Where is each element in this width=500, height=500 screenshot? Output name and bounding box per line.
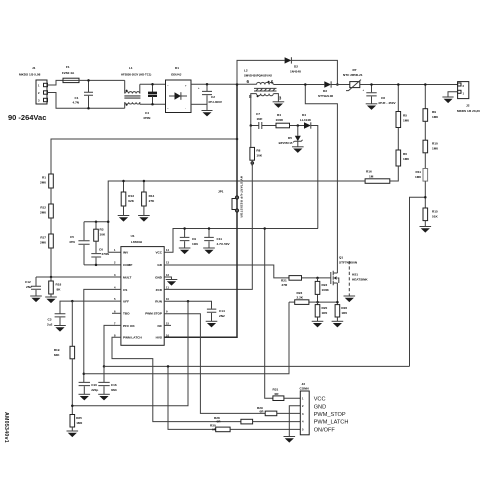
- svg-text:5: 5: [271, 79, 274, 84]
- svg-text:HF2826-203Y (HD-TC1): HF2826-203Y (HD-TC1): [121, 73, 151, 77]
- resistor R11 1M0: [415, 169, 428, 182]
- junction VCC at J3 branch: [263, 227, 266, 230]
- svg-text:HS1: HS1: [352, 273, 358, 277]
- svg-text:C12: C12: [25, 280, 31, 284]
- svg-text:1R0: 1R0: [322, 311, 328, 315]
- wire GND pin stub: [164, 277, 171, 280]
- svg-text:C3: C3: [48, 318, 52, 322]
- svg-text:J3: J3: [302, 382, 306, 386]
- diode D3 STTH2L06 boost diode: [318, 81, 333, 98]
- ground below R25: [67, 431, 79, 437]
- svg-text:10K: 10K: [256, 154, 262, 158]
- wire RUN pin to C14: [164, 301, 211, 308]
- svg-text:R17: R17: [40, 236, 46, 240]
- svg-text:R9: R9: [432, 110, 436, 114]
- resistor R16 1M feedback: [365, 170, 390, 184]
- resistor R1 2M0: [40, 174, 53, 188]
- connector J3 CONN control: [300, 382, 310, 435]
- svg-text:ON/OFF: ON/OFF: [314, 427, 336, 433]
- ground below C3: [54, 326, 66, 332]
- svg-text:12: 12: [166, 273, 169, 277]
- svg-text:R21: R21: [281, 278, 287, 282]
- wire HVS bus vertical: [164, 85, 237, 338]
- wire choke to bridge bottom: [140, 103, 166, 105]
- wire R12 to R17: [50, 218, 52, 234]
- ground IC GND pin: [166, 280, 178, 286]
- ground J3: [284, 437, 296, 443]
- svg-text:C6: C6: [99, 248, 103, 252]
- svg-text:1M0: 1M0: [403, 157, 409, 161]
- svg-text:R18: R18: [56, 283, 62, 287]
- svg-text:L6563H: L6563H: [131, 240, 143, 244]
- ground below C16: [98, 394, 110, 400]
- wire compensation top line: [84, 221, 108, 223]
- wire ZCD net R8 down to IC: [164, 163, 252, 289]
- svg-text:AM05340v1: AM05340v1: [3, 412, 9, 443]
- diode D2 1N4148 bypass: [285, 57, 302, 73]
- junction R9 at rail: [424, 83, 427, 86]
- svg-text:1M0: 1M0: [76, 421, 82, 425]
- svg-text:GBU4J: GBU4J: [171, 73, 182, 77]
- ground below C8: [366, 104, 378, 110]
- capacitor C16 3N3 pfc_ok: [98, 366, 117, 394]
- svg-text:1NF: 1NF: [257, 117, 263, 121]
- wire output rail to D3: [274, 84, 325, 86]
- wire L2 pin8 aux winding down: [251, 94, 257, 126]
- wire NC stub: [164, 324, 171, 326]
- svg-text:470N: 470N: [102, 252, 110, 256]
- svg-text:C14: C14: [219, 309, 225, 313]
- svg-text:BZV55C15: BZV55C15: [279, 141, 293, 145]
- svg-text:R5: R5: [403, 114, 407, 118]
- svg-text:U1: U1: [131, 234, 135, 238]
- resistor R17 2M0: [40, 234, 53, 248]
- wire R28 to J3 pin4: [253, 421, 301, 423]
- wire VCC pin to vcc rail: [164, 229, 318, 253]
- svg-text:GD: GD: [157, 263, 162, 267]
- svg-text:R12: R12: [40, 206, 46, 210]
- svg-text:R25: R25: [76, 416, 82, 420]
- junction C4 bottom: [151, 103, 154, 106]
- svg-text:R10: R10: [432, 142, 438, 146]
- capacitor C11 4.7U-50V vcc: [204, 229, 230, 249]
- svg-text:13: 13: [166, 261, 169, 265]
- wire R29 to J3 pin3: [277, 412, 301, 414]
- svg-text:R6: R6: [403, 152, 407, 156]
- svg-text:MULT: MULT: [123, 275, 131, 279]
- wire MULT line: [36, 276, 121, 278]
- junction Q1 source at sense line: [336, 301, 339, 304]
- wire R17 to MULT node: [50, 248, 52, 277]
- resistor R13 62K inv divider: [121, 181, 135, 216]
- svg-text:CS: CS: [123, 288, 127, 292]
- svg-text:GND: GND: [314, 404, 326, 410]
- ground below C9: [179, 248, 191, 254]
- resistor R8 10K zcd: [250, 126, 263, 167]
- ground below D5: [292, 147, 304, 153]
- svg-text:2N2: 2N2: [219, 314, 225, 318]
- svg-text:3N3: 3N3: [111, 388, 117, 392]
- wire R5 to R6: [397, 128, 399, 151]
- svg-text:RUN: RUN: [155, 300, 162, 304]
- svg-text:R4: R4: [277, 113, 281, 117]
- resistor R22 100K gate-source: [315, 278, 329, 302]
- svg-text:C1: C1: [75, 96, 79, 100]
- ground J2: [442, 97, 453, 103]
- resistor R25 1M0 run: [70, 415, 82, 432]
- svg-text:2M0: 2M0: [40, 211, 46, 215]
- svg-text:R13: R13: [128, 194, 134, 198]
- wire R10 to R11: [424, 153, 426, 169]
- svg-text:R19: R19: [54, 348, 60, 352]
- svg-text:F1: F1: [66, 65, 70, 69]
- junction C8 top: [370, 83, 373, 86]
- junction comp at INV vertical: [107, 220, 110, 223]
- inductor L1 HF2826-203Y common-mode choke: [121, 66, 151, 108]
- resistor R14 27K inv divider: [142, 181, 155, 216]
- wire R1 to R12: [50, 188, 52, 204]
- svg-text:10N: 10N: [192, 242, 198, 246]
- junction C4 top: [151, 83, 154, 86]
- wire D2 cathode down to output rail: [291, 60, 337, 84]
- svg-text:D3: D3: [323, 89, 327, 93]
- svg-text:PFC OK: PFC OK: [123, 324, 135, 328]
- wire COMP line to IC: [84, 264, 121, 266]
- wire fuse to choke, top rail: [79, 79, 125, 81]
- junction C7 aux node: [250, 124, 253, 127]
- wire pfc_ok long line: [104, 365, 410, 367]
- resistor R31 0R vcc: [273, 388, 284, 401]
- junction R19 tap: [71, 300, 74, 303]
- resistor R18 8K mult lower: [49, 277, 62, 297]
- ground below C2: [202, 111, 213, 117]
- svg-text:HV START-UP RESISTOR: HV START-UP RESISTOR: [240, 176, 244, 218]
- svg-text:VCC: VCC: [314, 397, 326, 403]
- svg-text:84K: 84K: [54, 353, 60, 357]
- wire J3 pin2 to ground: [289, 406, 300, 437]
- svg-text:R1: R1: [42, 176, 46, 180]
- wire rectified bus up branch to D2: [237, 60, 285, 84]
- resistor R5 1M0: [396, 85, 409, 128]
- svg-text:14: 14: [166, 248, 169, 252]
- junction gate R22 tap: [316, 277, 319, 280]
- resistor R3 10K comp: [94, 222, 106, 253]
- wire choke to bridge top: [140, 83, 166, 85]
- junction PFC_OK at pfc line: [103, 365, 106, 368]
- svg-text:R3: R3: [100, 228, 104, 232]
- junction drain branch at rail: [304, 83, 307, 86]
- svg-text:4.7U-50V: 4.7U-50V: [217, 242, 231, 246]
- wire R30 to J3 pin5: [230, 428, 300, 430]
- svg-text:CONN: CONN: [300, 387, 310, 391]
- capacitor C6 470N comp: [91, 248, 109, 265]
- connector J1 MKDS 1/3-5,08: [19, 66, 48, 104]
- svg-text:R16: R16: [366, 170, 372, 174]
- wire INV net R16 to left: [108, 181, 365, 252]
- wire bridge plus output rail: [191, 83, 257, 85]
- svg-text:F2S0 4A: F2S0 4A: [62, 71, 75, 75]
- svg-text:2M0: 2M0: [40, 241, 46, 245]
- svg-text:VCC: VCC: [155, 251, 162, 255]
- resistor R9 1M0: [423, 85, 438, 122]
- svg-text:10: 10: [166, 297, 169, 301]
- svg-text:R22: R22: [322, 283, 328, 287]
- ground below C11: [203, 248, 215, 254]
- svg-text:NTC 2R5D-21: NTC 2R5D-21: [343, 73, 363, 77]
- svg-text:L1: L1: [129, 66, 133, 70]
- svg-text:1R0: 1R0: [341, 311, 347, 315]
- svg-text:51K: 51K: [432, 215, 438, 219]
- bridge rectifier D1 GBU4J: [166, 66, 192, 113]
- svg-text:C16: C16: [111, 383, 117, 387]
- wire TBO stub: [112, 312, 121, 314]
- junction R11 bottom: [424, 196, 427, 199]
- svg-text:HVS: HVS: [156, 336, 162, 340]
- resistor R28 0R pwm_latch: [214, 416, 253, 424]
- wire L2 pin3 to ground: [274, 94, 279, 102]
- wire UFF pin to C3: [60, 301, 121, 313]
- svg-text:R31: R31: [273, 388, 279, 392]
- wire NTC to J2 rail: [360, 84, 458, 86]
- capacitor C12 2N2 mult filter: [25, 277, 41, 296]
- svg-text:R14: R14: [149, 194, 155, 198]
- svg-text:47U-400V: 47U-400V: [208, 100, 223, 104]
- jumper JP1: [218, 190, 239, 213]
- svg-text:UFF: UFF: [123, 300, 129, 304]
- svg-text:2u2: 2u2: [47, 323, 53, 327]
- junction rectified bus at rail: [236, 83, 239, 86]
- svg-text:D5: D5: [288, 136, 292, 140]
- svg-text:STTH2L06: STTH2L06: [318, 94, 333, 98]
- wire J1 pin1 to fuse: [48, 80, 64, 85]
- svg-text:PWM LATCH: PWM LATCH: [123, 336, 142, 340]
- svg-text:R15: R15: [432, 210, 438, 214]
- resistor R10 1M0: [423, 140, 438, 153]
- svg-text:MKDS 1/3-5,08: MKDS 1/3-5,08: [19, 73, 41, 77]
- wire R31 to J3 pin1: [284, 397, 300, 399]
- junction D2 at output rail: [336, 83, 339, 86]
- svg-text:4.7N: 4.7N: [73, 101, 80, 105]
- wire J1 pin2 to bottom rail: [48, 93, 125, 109]
- capacitor C8 47UF-450V bulk: [363, 85, 397, 106]
- wire R4 to D4: [290, 125, 305, 127]
- svg-text:TBO: TBO: [123, 312, 130, 316]
- svg-text:Q1: Q1: [339, 256, 343, 260]
- capacitor C9 10N vcc: [180, 229, 199, 249]
- svg-text:2N2: 2N2: [26, 285, 32, 289]
- capacitor C4 470N: [143, 84, 157, 120]
- IC U1 L6563H: [121, 234, 164, 345]
- ground L2 pin3: [273, 102, 285, 108]
- svg-text:27R: 27R: [282, 283, 288, 287]
- wire D3 to NTC: [331, 84, 350, 86]
- svg-text:470N: 470N: [143, 116, 151, 120]
- svg-text:D4: D4: [302, 113, 306, 117]
- wire PFC_OK pin to pfc line: [104, 325, 121, 366]
- svg-text:D2: D2: [294, 65, 298, 69]
- svg-text:27K: 27K: [149, 199, 155, 203]
- ground below R15: [420, 227, 432, 233]
- svg-text:R11: R11: [415, 170, 421, 174]
- junction C9 at vcc rail: [183, 227, 186, 230]
- svg-text:C2: C2: [211, 95, 215, 99]
- junction R5 at rail: [397, 83, 400, 86]
- capacitor C7 1NF snubber: [251, 112, 276, 129]
- svg-text:3: 3: [279, 96, 282, 101]
- resistor R23 2.2K cs filter: [289, 291, 318, 304]
- svg-text:1M: 1M: [369, 174, 374, 178]
- svg-text:STF7NM50N: STF7NM50N: [339, 260, 358, 264]
- ground below C14: [206, 321, 218, 327]
- svg-text:J2: J2: [466, 104, 470, 108]
- connector J2 MKDS output: [457, 82, 480, 113]
- svg-text:MKDS 1/6 20,20: MKDS 1/6 20,20: [457, 109, 480, 113]
- heatsink HS1 dashed: [349, 261, 368, 296]
- capacitor C3 2u2 vff: [47, 314, 65, 327]
- svg-text:1M0: 1M0: [432, 147, 438, 151]
- zener D5 BZV55C15: [279, 126, 303, 147]
- svg-text:62K: 62K: [128, 199, 134, 203]
- ground heatsink: [344, 296, 356, 302]
- junction RUN route at R19: [71, 405, 74, 408]
- fuse F1 F250-4A: [62, 65, 79, 83]
- svg-text:C5: C5: [70, 235, 74, 239]
- svg-text:PWM_LATCH: PWM_LATCH: [314, 420, 349, 426]
- capacitor C1 4.7N: [73, 80, 94, 108]
- resistor R26 1R0 sense: [335, 302, 347, 321]
- svg-text:1M0: 1M0: [432, 115, 438, 119]
- svg-text:R23: R23: [297, 291, 303, 295]
- svg-text:C4: C4: [145, 111, 149, 115]
- svg-text:PWM_STOP: PWM_STOP: [314, 412, 346, 418]
- resistor R19 84K vff-run: [54, 301, 75, 414]
- transistor Q1 STF7NM50N mosfet: [331, 256, 358, 286]
- resistor R4 100R: [276, 113, 290, 128]
- wire CS bottom line: [84, 302, 289, 374]
- ground below R26: [332, 321, 344, 327]
- svg-text:100R: 100R: [276, 118, 284, 122]
- junction D5 tap: [297, 124, 300, 127]
- wire VCC route to J3: [265, 229, 273, 399]
- svg-text:C8: C8: [381, 96, 385, 100]
- resistor R12 2M0: [40, 204, 53, 218]
- svg-text:100K: 100K: [322, 288, 330, 292]
- capacitor C2 47U-400V: [198, 84, 223, 110]
- svg-text:2M0: 2M0: [40, 181, 46, 185]
- junction bus at y139: [236, 138, 239, 141]
- junction C1 bottom: [87, 107, 90, 110]
- svg-text:C11: C11: [217, 237, 223, 241]
- wire Q1 source to sense node: [318, 283, 338, 302]
- svg-text:ZCD: ZCD: [156, 288, 163, 292]
- NTC R7 2R5D-21 inrush: [343, 68, 363, 91]
- ground below C10: [79, 394, 91, 400]
- capacitor C5 47N comp: [69, 222, 90, 265]
- junction on-off at pfc line: [167, 365, 170, 368]
- diode D4 LL4148: [300, 113, 311, 129]
- svg-text:C10: C10: [91, 383, 97, 387]
- svg-text:C9: C9: [192, 237, 196, 241]
- capacitor C14 2N2 run: [207, 309, 225, 321]
- svg-text:1M0: 1M0: [403, 119, 409, 123]
- svg-text:220p: 220p: [91, 388, 98, 392]
- svg-text:HEATSINK: HEATSINK: [352, 278, 368, 282]
- junction C1 top: [87, 79, 90, 82]
- svg-text:-: -: [185, 108, 186, 111]
- junction R14 at INV line: [143, 180, 146, 183]
- svg-text:NC: NC: [158, 324, 163, 328]
- ground below R13: [118, 216, 130, 222]
- wire drain branch from rail: [305, 85, 337, 274]
- svg-text:GND: GND: [155, 275, 163, 279]
- capacitor C10 220p cs: [79, 382, 99, 394]
- svg-text:L2: L2: [244, 69, 248, 73]
- svg-text:SMVD430PQ40/2V/42: SMVD430PQ40/2V/42: [244, 74, 272, 78]
- wire PWM_LATCH pin route to J3: [112, 337, 241, 421]
- wire J2 pin1 to ground: [448, 92, 458, 97]
- svg-text:15: 15: [166, 321, 169, 325]
- svg-text:R26: R26: [341, 306, 347, 310]
- wire ON-OFF route from pfc line to J3: [168, 366, 216, 429]
- junction comp R3 tap: [95, 220, 98, 223]
- wire D4 to VCC rail: [311, 126, 318, 229]
- junction C2 top: [206, 83, 209, 86]
- ground below R14: [138, 216, 150, 222]
- wire CS pin route: [84, 289, 121, 382]
- resistor R6 1M0: [396, 150, 409, 166]
- wire PWM_STOP pin route to J3: [164, 314, 265, 414]
- svg-text:D1: D1: [175, 66, 179, 70]
- junction MULT at R17: [50, 276, 53, 279]
- resistor R20 1R0 sense: [315, 302, 327, 321]
- wire RUN bottom route: [72, 301, 188, 406]
- svg-text:10K: 10K: [100, 233, 106, 237]
- resistor R15 51K: [423, 208, 438, 227]
- junction CS at bottom line: [83, 373, 86, 376]
- svg-text:PWM STOP: PWM STOP: [145, 312, 162, 316]
- junction C6 at COMP line: [95, 264, 98, 267]
- wire R9 to R10: [424, 121, 426, 140]
- svg-text:1M0: 1M0: [415, 175, 421, 179]
- junction R13 at INV line: [122, 180, 125, 183]
- junction C11 at vcc rail: [208, 227, 211, 230]
- wire GD gate drive: [164, 265, 289, 278]
- resistor R21 27R gate: [281, 276, 302, 287]
- wire bridge minus to C2: [191, 103, 207, 105]
- svg-text:1N4148: 1N4148: [290, 70, 301, 74]
- svg-text:R7: R7: [353, 68, 357, 72]
- wire R11 to R15 and pfc_ok branch: [410, 181, 426, 366]
- wire sense line y139 from bus to R1 chain: [51, 139, 237, 174]
- svg-text:R20: R20: [322, 306, 328, 310]
- svg-text:J1: J1: [32, 66, 36, 70]
- resistor R30 0R on-off: [210, 424, 230, 432]
- svg-text:COMP: COMP: [123, 263, 132, 267]
- wire R6 down to R16 line: [390, 166, 399, 181]
- transformer L2 SMVD430PQ40 boost inductor: [244, 69, 282, 101]
- svg-text:90 -264Vac: 90 -264Vac: [8, 113, 46, 122]
- svg-text:47UF - 450V: 47UF - 450V: [378, 101, 396, 105]
- svg-text:6: 6: [246, 79, 249, 84]
- svg-text:C7: C7: [256, 112, 260, 116]
- wire R21 to gate: [302, 277, 331, 279]
- svg-text:47N: 47N: [69, 240, 75, 244]
- svg-text:R8: R8: [256, 149, 260, 153]
- ground below C12: [30, 296, 42, 302]
- junction RUN on-off tap: [187, 300, 190, 303]
- svg-text:LL4148: LL4148: [300, 118, 311, 122]
- ground below R20: [312, 321, 324, 327]
